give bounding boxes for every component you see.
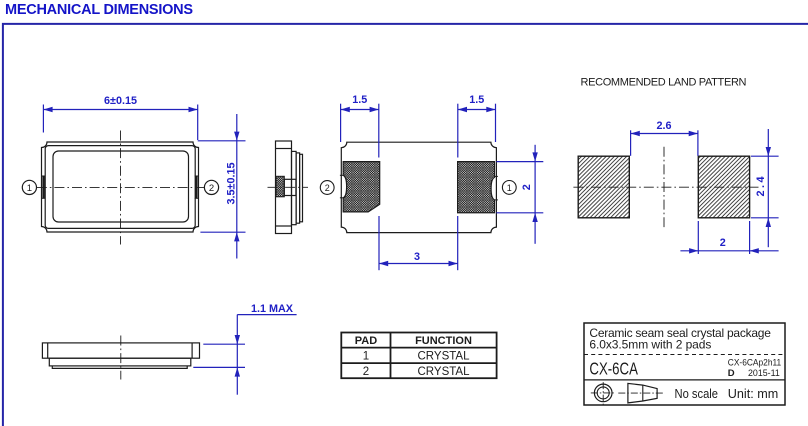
bottom view pad 1 (right, crosshatched)	[458, 162, 495, 213]
svg-text:CRYSTAL: CRYSTAL	[418, 350, 471, 362]
front view lid section	[42, 343, 199, 358]
svg-text:Unit: mm: Unit: mm	[728, 387, 779, 401]
svg-text:1: 1	[27, 183, 32, 194]
svg-text:D: D	[728, 368, 735, 379]
pin 2 balloon	[204, 180, 218, 194]
land pad right	[698, 156, 749, 218]
top view right terminal mark	[195, 176, 199, 198]
pin 1 balloon	[22, 180, 36, 194]
pad 1 balloon	[502, 181, 516, 195]
dimension 3.5±0.15	[198, 114, 246, 259]
land pad left	[578, 156, 629, 218]
bottom view left edge castellation ticks	[340, 175, 343, 198]
top view cavity outline	[53, 151, 189, 222]
svg-text:3.5±0.15: 3.5±0.15	[225, 163, 237, 205]
land pattern vertical centerline	[663, 147, 665, 227]
svg-text:2: 2	[209, 183, 214, 194]
top view left terminal mark	[42, 176, 46, 198]
dimension 2.4	[751, 129, 779, 247]
top view vertical centerline	[120, 131, 122, 245]
front view bottom base layer	[52, 366, 187, 369]
dimension 1.5 right	[458, 94, 496, 158]
dimension 2 (pad height)	[496, 145, 543, 244]
svg-text:6±0.15: 6±0.15	[104, 95, 137, 107]
top view horizontal centerline	[37, 186, 205, 188]
top view lid seam line	[45, 146, 195, 229]
title block outer box	[584, 323, 785, 405]
front view right cap line	[191, 343, 193, 358]
svg-text:6.0x3.5mm with 2 pads: 6.0x3.5mm with 2 pads	[589, 338, 711, 352]
svg-text:2: 2	[363, 366, 369, 378]
side view lid stack	[292, 151, 297, 224]
svg-text:1.5: 1.5	[352, 94, 367, 106]
title block dashed divider	[584, 354, 785, 356]
side view body	[276, 141, 292, 234]
table grid	[341, 333, 496, 379]
bottom view right edge castellation ticks	[495, 176, 498, 200]
front view left cap line	[47, 343, 49, 358]
svg-text:2: 2	[325, 183, 330, 193]
svg-text:1.5: 1.5	[469, 94, 484, 106]
svg-text:No scale: No scale	[675, 387, 719, 401]
side view inner pad outline	[284, 179, 296, 195]
svg-text:2: 2	[720, 237, 726, 249]
land pattern horizontal centerline	[573, 186, 758, 188]
dimension 2 (land pad width)	[680, 221, 778, 254]
bottom view pad 2 (left, crosshatched)	[343, 162, 380, 212]
projection symbol circles	[591, 382, 616, 405]
svg-text:CRYSTAL: CRYSTAL	[418, 366, 471, 378]
svg-text:2015-11: 2015-11	[748, 368, 780, 379]
side view centerline	[268, 186, 309, 188]
side view terminal pad (hatched)	[276, 176, 284, 197]
dimension 2.6	[631, 120, 698, 156]
dimension 6±0.15	[43, 95, 197, 140]
svg-text:2: 2	[521, 184, 533, 190]
front view middle base layer	[49, 358, 191, 366]
svg-text:1.1 MAX: 1.1 MAX	[251, 303, 294, 315]
dimension 3	[379, 216, 458, 270]
pad 2 balloon	[320, 181, 334, 195]
svg-text:1: 1	[507, 183, 512, 193]
title block solid divider	[584, 379, 785, 381]
svg-text:CX-6CA: CX-6CA	[589, 358, 638, 378]
svg-text:1: 1	[363, 350, 369, 362]
front view vertical centerline	[120, 336, 122, 380]
svg-text:2.4: 2.4	[755, 174, 767, 197]
dimension 1.5 left	[341, 94, 379, 158]
svg-text:FUNCTION: FUNCTION	[415, 335, 472, 347]
svg-text:MECHANICAL DIMENSIONS: MECHANICAL DIMENSIONS	[5, 2, 193, 18]
svg-text:3: 3	[414, 251, 420, 263]
bottom view outline	[341, 142, 496, 232]
svg-text:PAD: PAD	[355, 335, 377, 347]
svg-text:2.6: 2.6	[656, 120, 671, 132]
dimension 1.1 MAX	[193, 303, 296, 395]
side view base lines	[276, 148, 292, 150]
top view outer outline with corner notches	[42, 142, 199, 232]
svg-text:RECOMMENDED LAND PATTERN: RECOMMENDED LAND PATTERN	[581, 77, 747, 89]
projection symbol frustum	[618, 383, 664, 403]
